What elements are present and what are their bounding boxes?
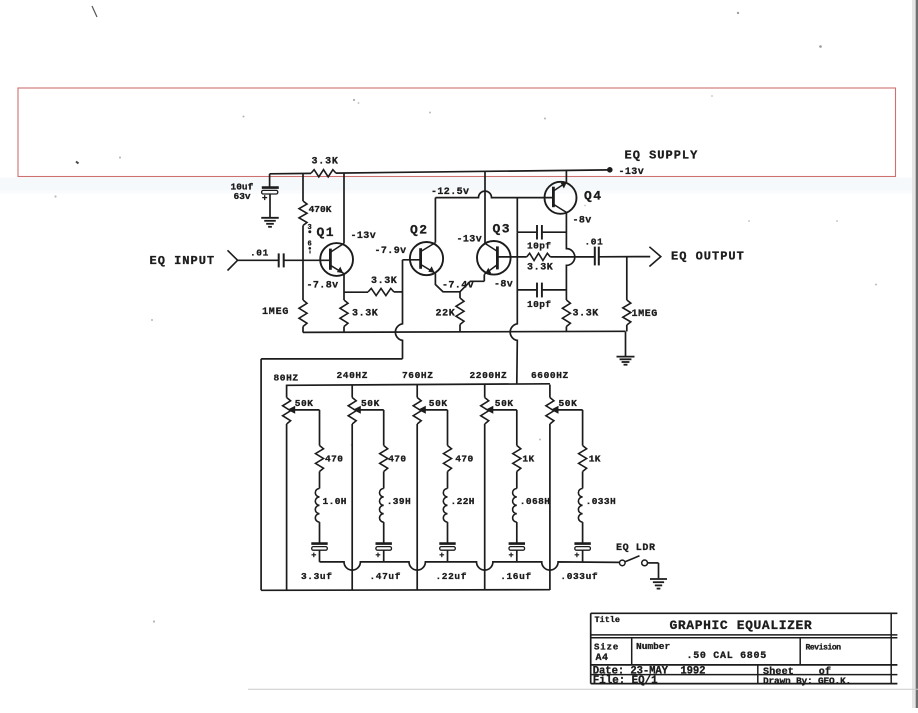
wire: cap bus to EQ LDR (hops pot legs) [320,562,620,570]
svg-text:-7.4v: -7.4v [442,281,474,292]
wire: Q3 emitter down [483,274,485,281]
capacitor 10pf (lower) [527,283,566,311]
capacitor .16uf (band 4) [500,544,532,582]
wire: 470K to Q1 base node [302,226,304,301]
svg-text:.01: .01 [585,236,604,247]
wire: output node [600,256,651,258]
svg-text:-13v: -13v [619,167,645,178]
label -7.9v (Q2 base) [375,246,407,257]
wire: ground bus rail [303,331,626,332]
svg-text:Q4: Q4 [584,189,603,204]
inductor .22H (band 3) [443,489,475,523]
label 240HZ [337,370,369,381]
inductor .068H (band 4) [513,489,551,523]
potentiometer 50K (band 1) [283,385,314,424]
transistor Q4 [545,182,603,214]
wire: Q2 emitter to 22K and Q3 emitter [435,273,484,292]
wire: emitter node across [344,291,368,293]
wire: pot leg lower (band 1) [286,424,288,590]
label -13v (Q1 collector) [351,231,377,242]
scan noise specks [54,6,877,623]
resistor 3.3K (supply feed) [311,157,339,177]
capacitor 10pf (upper) [527,225,566,252]
capacitor 10uf 63v [231,174,279,217]
potentiometer 50K (band 4) [481,385,514,424]
title block frame [591,613,898,683]
wire: resistor to inductor (band 2) [383,472,385,489]
svg-text:-8v: -8v [494,280,513,291]
wire: ground stub [625,331,627,356]
svg-text:50K: 50K [429,398,448,409]
wire: resistor to inductor (band 1) [319,472,321,489]
wire: wiper to chain (band 4) [493,410,517,446]
potentiometer 50K (band 3) [413,385,448,424]
capacitor .22uf (band 3) [436,544,468,582]
svg-text:50K: 50K [295,398,314,409]
label EQ SUPPLY [625,149,699,163]
svg-text:.47uf: .47uf [370,571,402,582]
inductor .39H (band 2) [380,489,412,523]
svg-text:50K: 50K [559,398,578,409]
wire: pot leg lower (band 3) [416,424,418,590]
svg-text:-7.8v: -7.8v [307,280,339,291]
label -7.4v [442,281,474,292]
label EQ OUTPUT [671,250,745,264]
wire: Q1 emitter down [343,274,345,293]
wire: EQ supply rail -13v [270,170,610,174]
svg-text:3.3K: 3.3K [312,157,339,168]
wire: Q4 collector down (hops output wire) [566,212,574,300]
resistor 1MEG (input bias) [262,300,307,333]
svg-text:1K: 1K [522,454,534,465]
potentiometer 50K (band 5) [546,385,578,424]
wire: bank left drop [260,359,262,590]
potentiometer 50K (band 2) [348,385,380,424]
page right edge [912,0,918,708]
transistor Q1 [317,225,354,276]
svg-text:3.3K: 3.3K [371,276,397,287]
svg-text:240HZ: 240HZ [337,370,369,381]
node: EQ SUPPLY -13v terminal dot [607,167,644,178]
output port connector [649,247,660,267]
red selection rectangle [18,88,896,177]
wire: Q3 base node vertical [516,232,518,290]
wire: lower 10pf branch [517,289,536,291]
wire: resistor to inductor (band 3) [447,472,449,489]
resistor 3.3K (Q4 collector load) [562,300,599,332]
wire: resistor to inductor (band 4) [516,472,518,489]
wire: pot leg lower (band 5) [549,424,551,590]
svg-text:3.3K: 3.3K [527,263,553,274]
wire: Q2 base from feedback node [403,259,421,261]
svg-text:.22H: .22H [451,496,475,507]
svg-text:470: 470 [455,454,473,465]
svg-text:1MEG: 1MEG [262,307,289,318]
svg-text:50K: 50K [495,398,514,409]
svg-text:-13v: -13v [351,231,377,242]
resistor 3.3K (Q1 emitter to Q2 base) [368,276,397,296]
svg-text:6600HZ: 6600HZ [531,370,569,381]
wire: band output rail (to Q3 base node) [287,384,550,386]
label 6600HZ [531,370,569,381]
svg-text:.22uf: .22uf [436,571,468,582]
wire: inductor to cap (band 2) [383,522,385,543]
label 760HZ [402,370,434,381]
wire: input to coupling cap [238,259,278,261]
wire: feedback node down to bank (hops ground rail) [395,260,402,359]
capacitor 3.3uf (band 1) [301,544,333,582]
wire: base-node down to filter bank (hops ground rail) [510,290,517,384]
label EQ INPUT [150,254,216,268]
svg-text:2200HZ: 2200HZ [470,370,508,381]
resistor 470 (band 2) [380,446,407,472]
wire: cap to Q1 base [285,259,331,261]
capacitor .47uf (band 2) [370,544,402,582]
wire: Q1 collector to rail [343,173,345,244]
svg-text:Title: Title [595,615,621,625]
wire: pot bottom bus [261,589,550,592]
wire: 3.3K to output cap [550,256,594,258]
svg-text:EQ SUPPLY: EQ SUPPLY [625,149,699,163]
svg-text:.068H: .068H [520,496,551,507]
svg-text:GRAPHIC EQUALIZER: GRAPHIC EQUALIZER [670,618,813,633]
switch EQ LDR [620,556,659,579]
ground (EQ LDR) [650,579,667,589]
svg-text:EQ INPUT: EQ INPUT [150,254,216,268]
capacitor .033uf (band 5) [560,544,598,582]
capacitor .01 (input coupling) [250,247,284,267]
svg-text:.01: .01 [250,247,269,258]
svg-text:22K: 22K [436,308,456,319]
svg-text:Number: Number [636,641,671,652]
inductor 1.0H (band 1) [315,489,347,523]
svg-text:.39H: .39H [387,496,411,507]
svg-text:Q1: Q1 [317,225,336,240]
svg-text:Q3: Q3 [493,222,512,237]
resistor 470K [299,201,332,226]
wire/junction: upper 10pf branch [517,198,536,233]
wire: resistor to inductor (band 5) [582,472,584,489]
inductor .033H (band 5) [578,489,616,523]
svg-text:1.0H: 1.0H [323,496,347,507]
ground (supply filter cap) [261,218,279,227]
wire: pot leg lower (band 2) [351,424,353,590]
resistor 1K (band 4) [513,446,535,472]
svg-text:10pf: 10pf [527,241,551,252]
svg-text:-8v: -8v [573,216,592,227]
svg-text:1K: 1K [589,454,601,465]
label 2200HZ [470,370,508,381]
svg-text:.033uf: .033uf [560,571,598,582]
wire: wiper to chain (band 1) [295,410,320,446]
label -13v (Q3 collector) [457,235,483,246]
resistor 470 (band 1) [316,446,344,472]
wire: wiper to chain (band 5) [558,410,583,446]
label -12.5v [431,187,469,198]
label -8v (Q4) [573,216,592,227]
wire: Q2 collector up [434,198,436,243]
svg-text:Q2: Q2 [410,222,429,237]
resistor 1MEG (output load) [623,257,658,332]
resistor 3.3K (Q3 base series) [527,253,554,273]
resistor 470 (band 3) [444,446,474,472]
wire: Q3 base to output node [497,256,526,258]
wire: 3.3K to Q2 base node [394,291,403,293]
transistor Q3 [477,222,511,275]
svg-text:Revision: Revision [806,644,842,653]
resistor 1K (band 5) [579,446,601,472]
input port connector [228,250,238,270]
svg-text:80HZ: 80HZ [274,372,299,383]
svg-text:760HZ: 760HZ [402,370,434,381]
svg-text:-13v: -13v [457,235,483,246]
scan tint band [0,178,918,194]
svg-text:EQ LDR: EQ LDR [616,543,656,554]
wire: pot leg lower (band 4) [484,424,486,590]
wire: inductor to cap (band 4) [516,522,518,543]
svg-text:63v: 63v [234,191,251,202]
svg-text:.50 CAL 6805: .50 CAL 6805 [687,651,767,662]
wire: Q3 collector from rail [484,171,486,243]
transistor Q2 [410,222,443,275]
svg-text:3.3K: 3.3K [352,309,378,320]
page bottom edge [248,688,918,690]
label -8v (Q3 emitter) [494,280,513,291]
wire: wiper to chain (band 2) [360,410,383,446]
svg-text:.033H: .033H [586,496,617,507]
wire: bank feed left [261,358,402,360]
label EQ LDR [616,543,656,554]
svg-text:EQ OUTPUT: EQ OUTPUT [671,250,745,264]
label -7.8v (Q1 emitter) [307,280,339,291]
svg-text:470: 470 [388,454,406,465]
svg-text:-7.9v: -7.9v [375,246,407,257]
svg-text:Size: Size [594,642,619,652]
wire: Q4 emitter to rail [565,170,567,182]
resistor 22K [436,292,465,332]
artifact pin marks (3,6) [308,224,312,254]
resistor 3.3K (Q1 emitter load) [340,293,378,332]
wire: wiper to chain (band 3) [425,410,447,446]
svg-text:.16uf: .16uf [500,571,532,582]
wire: Q2 collector to Q4 base (hops Q3 collector) [435,191,553,198]
svg-text:470: 470 [325,454,343,465]
wire: inductor to cap (band 1) [319,522,321,543]
label 80HZ [274,372,299,383]
svg-text:1MEG: 1MEG [632,309,658,320]
svg-text:-12.5v: -12.5v [431,187,469,198]
wire: inductor to cap (band 5) [582,522,584,543]
svg-text:3.3uf: 3.3uf [301,571,333,582]
svg-text:470K: 470K [309,204,332,215]
wire: 470K branch from rail [302,174,304,202]
wire: inductor to cap (band 3) [447,522,449,543]
svg-text:File: EQ/1: File: EQ/1 [593,675,658,687]
svg-text:10pf: 10pf [527,299,551,310]
svg-text:3.3K: 3.3K [573,309,599,320]
svg-text:Drawn By: GEO.K.: Drawn By: GEO.K. [763,675,851,686]
ground (output) [617,357,635,365]
title block texts [593,615,851,687]
capacitor .01 (output coupling) [585,236,604,265]
svg-text:A4: A4 [596,653,609,664]
svg-text:50K: 50K [361,398,380,409]
